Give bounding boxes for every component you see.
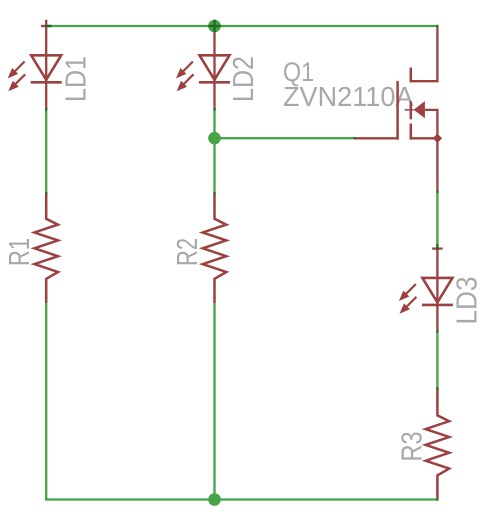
LED LD3 [399, 242, 453, 332]
wire R2 to bottom net [213, 303, 215, 499]
drain lead [411, 26, 438, 81]
svg-text:ZVN2110A: ZVN2110A [283, 81, 414, 112]
svg-text:LD1: LD1 [61, 56, 93, 102]
wire LD3 cathode to R3 [436, 331, 438, 388]
LED LD2 [176, 20, 230, 110]
svg-text:LD2: LD2 [228, 56, 260, 102]
wire Q1 source to LD3 [436, 192, 438, 245]
resistor R3 [426, 388, 450, 499]
wire gate net [215, 137, 355, 139]
corner overlap top-right [436, 25, 438, 27]
wire R1 to bottom net [46, 303, 438, 499]
svg-text:R2: R2 [172, 238, 204, 266]
wire LD1 cathode to R1 [45, 109, 47, 193]
body-source junction diamond [433, 134, 442, 143]
svg-text:R1: R1 [4, 238, 36, 266]
junction dot top [208, 20, 221, 33]
transistor Q1 (ZVN2110A N-MOSFET) [355, 26, 442, 192]
source lead [411, 137, 438, 139]
svg-text:R3: R3 [397, 432, 429, 462]
body pin tick [405, 109, 414, 111]
body arrow [414, 101, 425, 118]
junction dark cross under top dot [208, 20, 220, 32]
junction dot bottom [208, 493, 221, 506]
wire top net N$1 [46, 25, 438, 27]
LED LD1 [8, 20, 62, 110]
body bar [410, 101, 413, 119]
drain bar [410, 68, 413, 83]
source bar [410, 124, 413, 140]
source pin [436, 138, 438, 191]
body lead [425, 110, 438, 138]
junction dot gate [208, 132, 221, 145]
wire overlap dark LD3 pin [436, 244, 438, 250]
corner overlap bottom-right [436, 498, 438, 500]
wire LD2 cathode to R2 [213, 109, 215, 193]
svg-text:LD3: LD3 [452, 277, 484, 325]
gate bar [396, 81, 399, 140]
resistor R2 [203, 193, 227, 303]
pin transition marks [45, 108, 438, 389]
resistor R1 [34, 193, 58, 303]
gate pin [355, 137, 397, 139]
wire overlap dark LD1 tick [45, 25, 52, 27]
